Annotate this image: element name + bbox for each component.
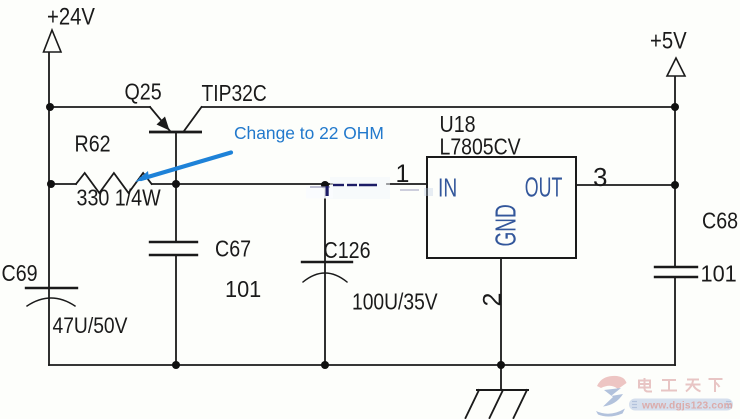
svg-text:47U/50V: 47U/50V [53,314,128,339]
svg-text:C67: C67 [215,235,251,262]
svg-text:330 1/4W: 330 1/4W [77,184,162,211]
svg-text:3: 3 [593,162,607,192]
svg-text:101: 101 [225,275,261,302]
svg-text:C69: C69 [2,259,38,286]
svg-text:2: 2 [479,293,507,307]
svg-text:IN: IN [438,173,457,203]
svg-text:C126: C126 [324,236,371,263]
svg-text:GND: GND [491,204,523,246]
svg-text:R62: R62 [75,130,111,157]
svg-text:L7805CV: L7805CV [440,133,522,160]
svg-text:TIP32C: TIP32C [202,80,267,106]
svg-text:C68: C68 [702,207,738,234]
svg-text:www.dgjs123.com: www.dgjs123.com [641,401,733,412]
svg-text:100U/35V: 100U/35V [352,289,438,315]
svg-text:OUT: OUT [525,172,563,203]
svg-text:Q25: Q25 [125,78,162,105]
svg-text:Change to 22 OHM: Change to 22 OHM [234,123,384,143]
svg-text:+5V: +5V [650,27,687,54]
svg-text:1: 1 [396,160,410,188]
svg-text:+24V: +24V [47,3,95,30]
svg-text:101: 101 [701,260,737,287]
